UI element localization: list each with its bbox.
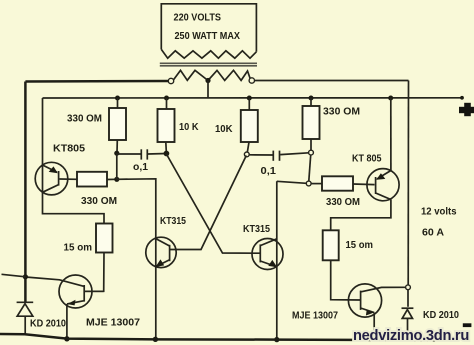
resistor 15 om left	[96, 224, 113, 253]
svg-text:10 K: 10 K	[179, 121, 199, 133]
resistor 330 OM top-left	[109, 108, 126, 140]
wire +12V rail	[43, 96, 464, 100]
battery - terminal	[463, 323, 472, 327]
wire right column vertical	[309, 155, 311, 181]
wire to left edge	[2, 274, 26, 277]
label KT315 left	[160, 215, 186, 227]
svg-text:10K: 10K	[215, 123, 233, 135]
label 60 A	[422, 227, 444, 239]
wire 15om left to MJE collector	[85, 253, 104, 292]
wire KT805 right emitter to 15om	[331, 200, 391, 231]
svg-text:KT315: KT315	[243, 223, 270, 235]
label MJE 13007 right	[292, 310, 338, 322]
svg-text:220 VOLTS: 220 VOLTS	[174, 12, 222, 24]
wire secondary left to left vertical	[25, 80, 168, 83]
node rail R330 left	[115, 96, 120, 101]
node MJE left emitter rail	[64, 336, 69, 341]
label 15 om left	[64, 242, 93, 254]
capacitor 0,1 right	[273, 151, 279, 161]
wire secondary right	[254, 80, 408, 82]
wire R330 top-right to ring	[310, 139, 312, 150]
diode KD2010 left	[17, 302, 34, 334]
svg-text:330 OM: 330 OM	[67, 113, 102, 125]
node left diode junction	[23, 274, 28, 279]
transformer T1 secondary winding	[173, 70, 251, 81]
svg-text:MJE 13007: MJE 13007	[86, 317, 140, 329]
svg-text:MJE 13007: MJE 13007	[292, 310, 338, 322]
svg-text:60 A: 60 A	[422, 227, 444, 239]
capacitor 0,1 left	[141, 149, 147, 159]
wire 10K right to node	[247, 142, 249, 154]
label 10 K	[179, 121, 199, 133]
resistor 330 OM bottom-left	[77, 172, 107, 187]
label 330 OM bottom-right	[326, 196, 360, 208]
transistor KT315 left	[146, 237, 176, 267]
svg-text:0,1: 0,1	[261, 165, 277, 177]
label 220 VOLTS	[174, 12, 222, 24]
wire MJE right emitter to rail	[373, 313, 375, 340]
wire 10K left to node	[165, 142, 168, 154]
svg-text:15 om: 15 om	[64, 242, 93, 254]
resistor 15 om right	[323, 230, 339, 260]
terminal secondary left	[168, 78, 173, 83]
wire MJE left emitter to rail	[66, 304, 68, 339]
wire +12V corner to KT805 left collector	[43, 98, 105, 224]
svg-text:12 volts: 12 volts	[421, 206, 457, 218]
label o,1	[133, 161, 148, 173]
wire rail to 10K left	[166, 98, 168, 109]
node cap left	[114, 151, 119, 156]
svg-text:nedvizimo.3dn.ru: nedvizimo.3dn.ru	[353, 328, 469, 344]
transistor MJE13007 right	[348, 284, 406, 317]
node left base network	[114, 177, 119, 182]
label 0,1	[261, 165, 277, 177]
svg-text:15 om: 15 om	[346, 239, 374, 251]
wire KT805 right collector vertical	[390, 98, 392, 171]
label KT315 right	[243, 223, 270, 235]
transistor KT315 right	[252, 239, 283, 270]
wire bottom rail	[0, 334, 452, 340]
wire base node to KT315 left collector	[117, 179, 156, 339]
label KT 805 right	[352, 153, 382, 165]
svg-text:330 OM: 330 OM	[81, 195, 117, 207]
transformer T1 primary winding	[161, 49, 256, 58]
label 250 WATT MAX	[175, 30, 241, 42]
node rail 10K right	[247, 96, 252, 101]
wire rail to R330 top-right	[310, 98, 312, 106]
wire R330 top-left to cap node	[116, 140, 118, 153]
wire cross diagonal left-to-right	[166, 154, 260, 253]
wire cap right lead	[249, 154, 273, 156]
node rail KT805 right collector	[388, 96, 393, 101]
transistor MJE13007 left	[25, 275, 103, 308]
transistor KT805 right	[367, 169, 399, 201]
node R330 right bottom	[309, 150, 314, 155]
node base network right	[306, 181, 311, 186]
wire cross diagonal right-to-left	[170, 156, 247, 250]
label 12 volts	[421, 206, 457, 218]
label 10K	[215, 123, 233, 135]
resistor 330 OM bottom-right	[322, 176, 353, 190]
wire KT805 left base to R330	[60, 178, 78, 180]
transformer T1 core	[160, 63, 257, 66]
svg-text:KD 2010: KD 2010	[423, 309, 459, 321]
node 10K left bottom	[164, 151, 170, 157]
resistor 10K right	[241, 110, 258, 142]
node KT315 left emitter to rail	[153, 337, 158, 342]
node right diode junction	[406, 285, 411, 290]
svg-text:KT315: KT315	[160, 215, 186, 227]
wire cap right to ring	[280, 153, 309, 155]
svg-text:KT805: KT805	[53, 142, 85, 154]
wire 15om right to MJE right collector	[331, 260, 360, 300]
wire right outer vertical upper	[407, 81, 409, 286]
node center tap	[205, 78, 210, 83]
wire R330 bottom-right to KT805 base	[353, 183, 375, 186]
label KT805 left	[53, 142, 85, 154]
svg-text:o,1: o,1	[133, 161, 148, 173]
wire left outer vertical	[24, 82, 27, 303]
wire rail to 10K right	[248, 98, 250, 110]
label 330 OM bottom-left	[81, 195, 117, 207]
node rail R330 right	[309, 96, 314, 101]
wire R330 bottom-left to node	[107, 178, 117, 180]
label 330 OM top-right	[323, 105, 360, 117]
svg-text:KD 2010: KD 2010	[30, 318, 66, 330]
wire ring to R330 bottom-right	[311, 183, 322, 185]
node rail 10K left	[164, 96, 169, 101]
resistor 330 OM top-right	[303, 106, 320, 139]
wire cap left lead	[117, 153, 141, 155]
battery + terminal	[459, 103, 474, 116]
watermark nedvizimo.3dn.ru	[353, 328, 469, 344]
wire KT315 right collector-emitter vertical	[276, 181, 278, 339]
resistor 10K left	[158, 109, 175, 142]
wire rail to R330 top-left	[117, 98, 119, 108]
label 330 OM top-left	[67, 113, 102, 125]
svg-text:KT 805: KT 805	[352, 153, 382, 165]
transformer T1 primary box	[161, 4, 256, 52]
wire cap node to base node vertical	[116, 153, 118, 179]
transistor KT805 left	[35, 162, 68, 195]
diode KD2010 right	[402, 290, 414, 340]
terminal secondary right	[249, 78, 254, 83]
wire KT315 right collector horizontal	[277, 181, 307, 183]
svg-text:250 WATT MAX: 250 WATT MAX	[175, 30, 241, 42]
label 15 om right	[346, 239, 374, 251]
svg-text:330 OM: 330 OM	[323, 105, 360, 117]
node 10K right bottom	[244, 152, 249, 157]
node KT315 right emitter to rail	[274, 337, 279, 342]
label KD 2010 right	[423, 309, 459, 321]
wire cap left to 10K node	[148, 153, 166, 156]
wire center tap to +12V rail	[207, 81, 209, 99]
label MJE 13007 left	[86, 317, 140, 329]
svg-text:330 OM: 330 OM	[326, 196, 360, 208]
label KD 2010 left	[30, 318, 66, 330]
